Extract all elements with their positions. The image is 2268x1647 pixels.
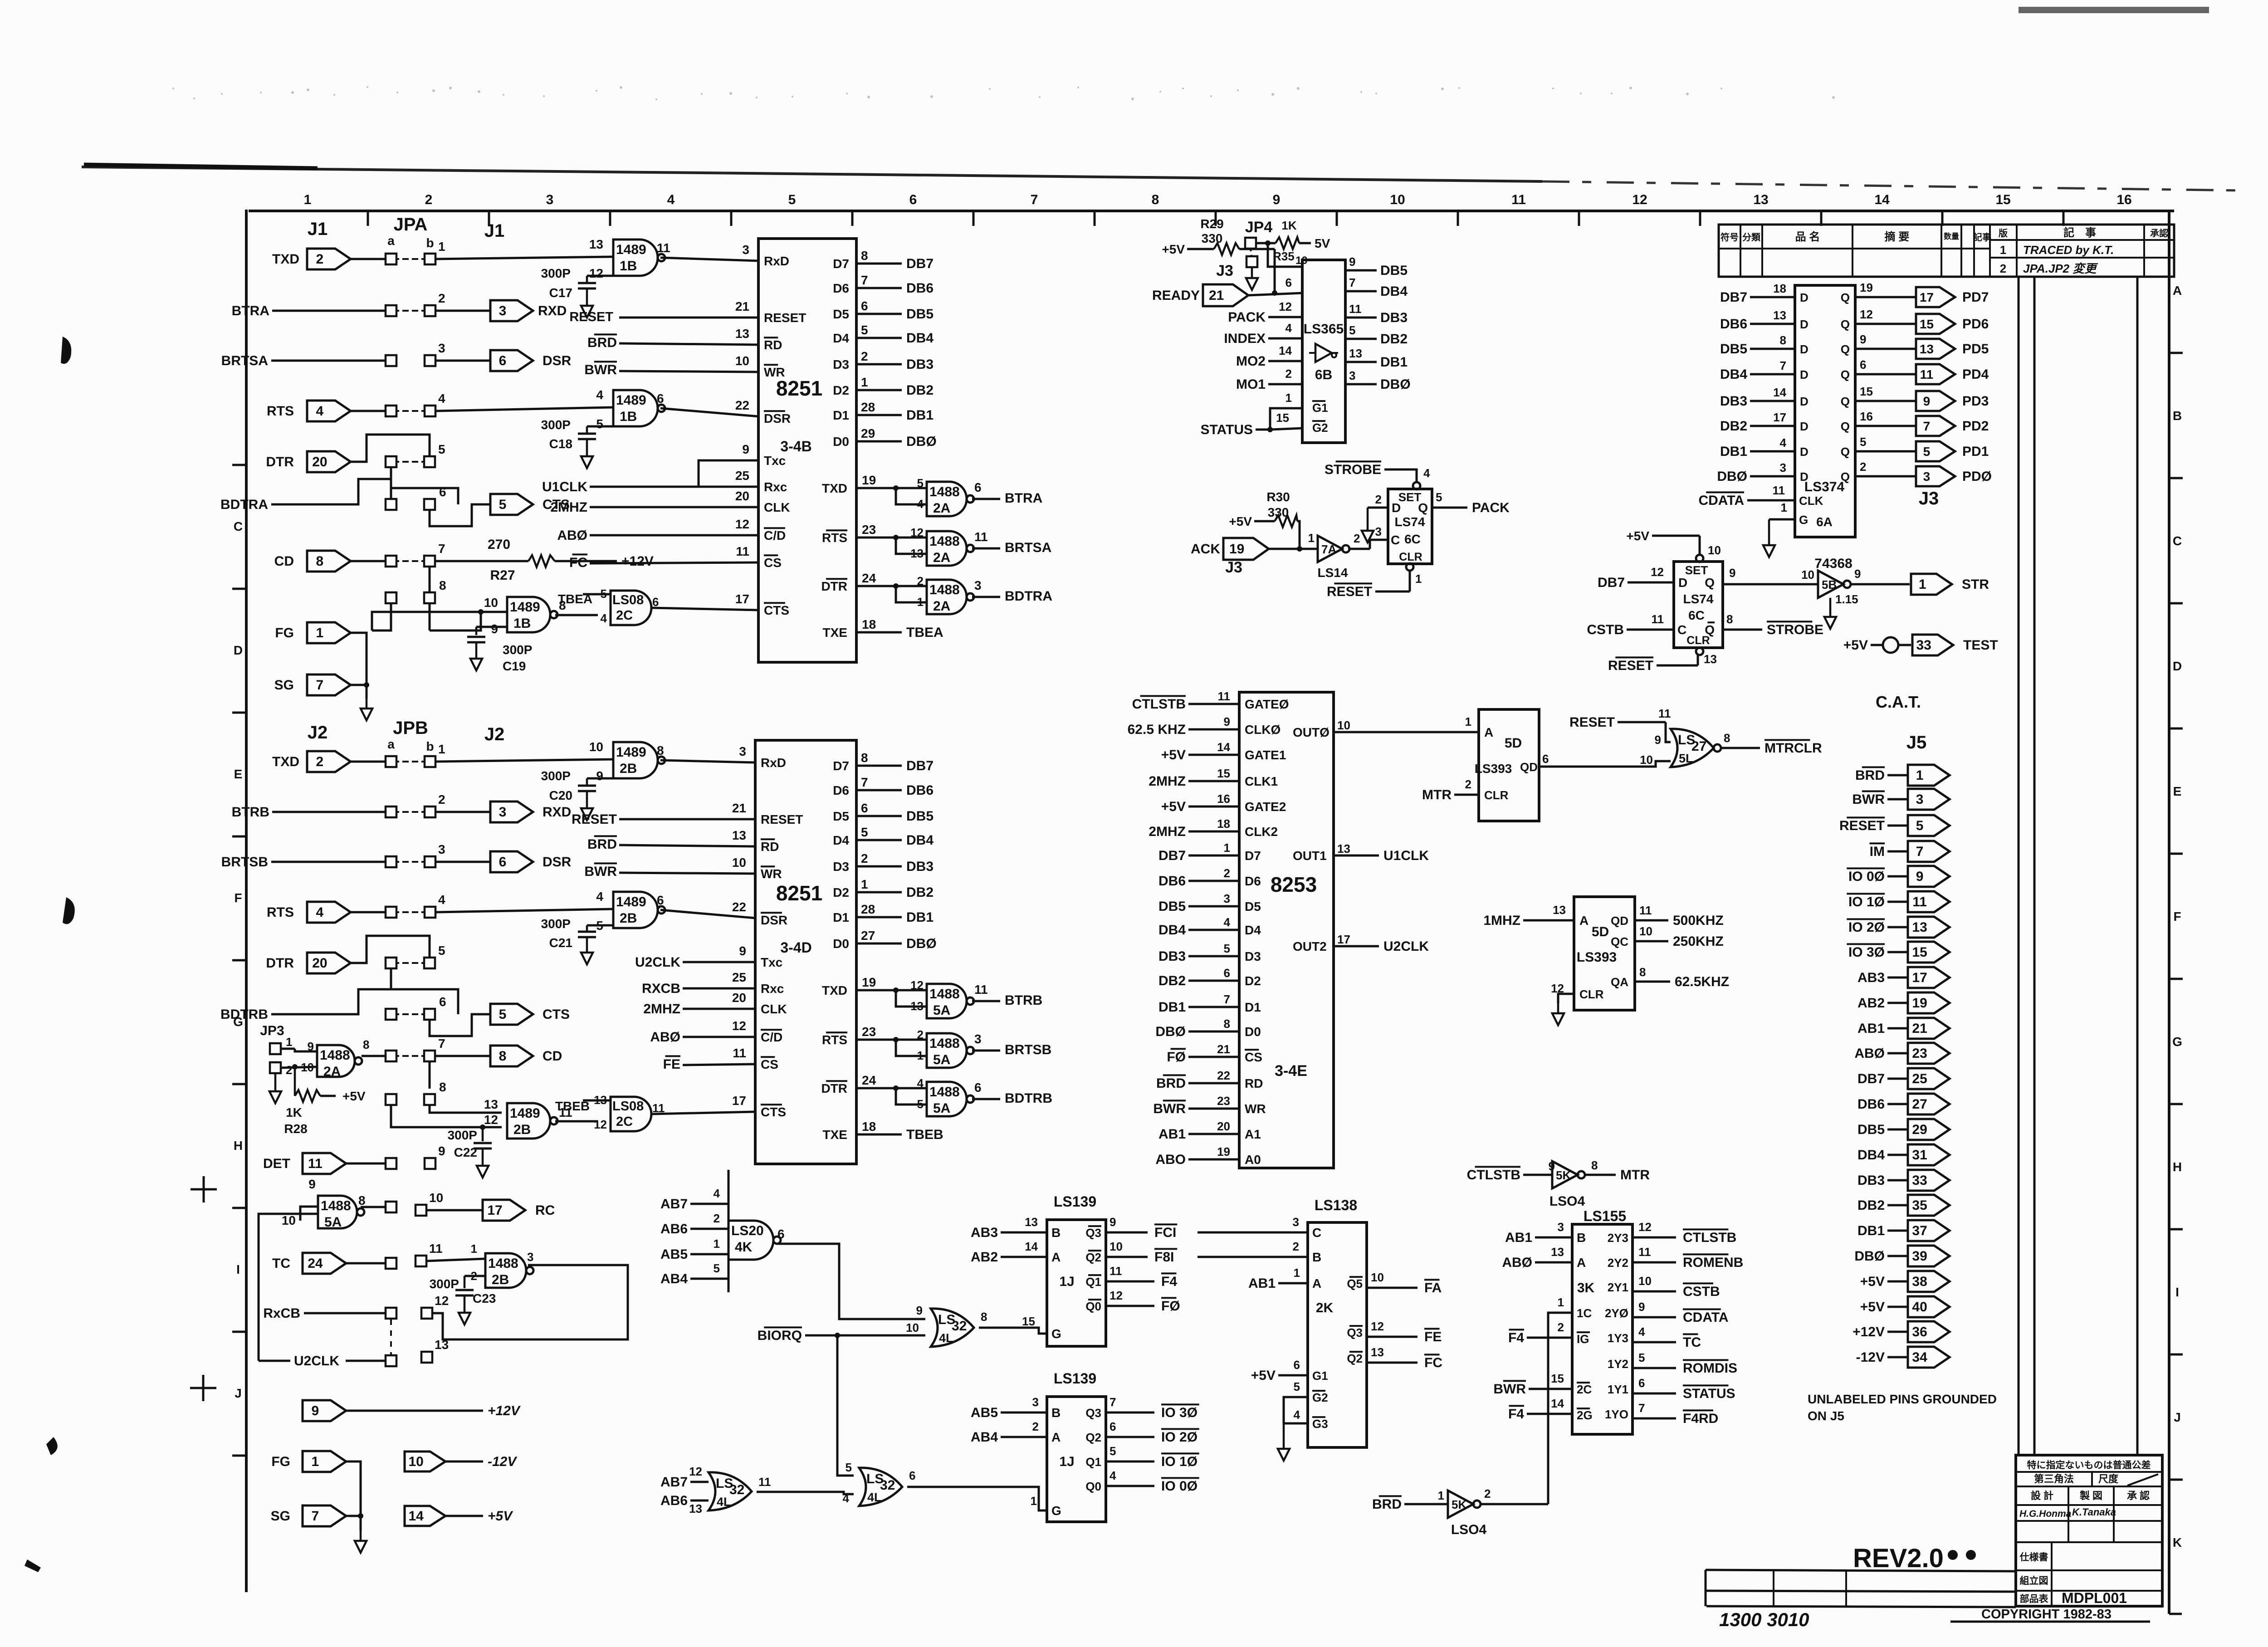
- svg-text:LS74: LS74: [1395, 515, 1425, 529]
- svg-text:4: 4: [596, 388, 603, 402]
- svg-text:D: D: [1800, 291, 1809, 304]
- svg-text:A: A: [1484, 725, 1493, 739]
- svg-text:a: a: [387, 737, 395, 751]
- svg-text:5D: 5D: [1592, 924, 1609, 939]
- svg-text:RESET: RESET: [1569, 715, 1615, 730]
- connector J2 pin CD 8: [490, 1046, 562, 1066]
- svg-text:20: 20: [312, 956, 327, 971]
- svg-text:D6: D6: [1245, 874, 1261, 888]
- svg-text:G3: G3: [1312, 1417, 1328, 1431]
- svg-text:DB2: DB2: [1857, 1198, 1885, 1213]
- svg-text:AB4: AB4: [660, 1271, 688, 1286]
- svg-text:RxD: RxD: [764, 254, 789, 268]
- svg-text:TXD: TXD: [822, 481, 847, 495]
- net RxCB row: [263, 1306, 386, 1321]
- svg-text:J2: J2: [308, 723, 328, 743]
- connector J1 label: [308, 219, 328, 239]
- svg-text:尺度: 尺度: [2098, 1473, 2119, 1485]
- svg-text:FC: FC: [569, 555, 587, 570]
- svg-text:2: 2: [1860, 460, 1866, 474]
- svg-text:2C: 2C: [616, 1114, 633, 1129]
- svg-text:1B: 1B: [620, 259, 637, 274]
- wire LS393 QD pin 11 to 500KHZ: [1635, 904, 1724, 928]
- svg-text:A: A: [1051, 1250, 1061, 1264]
- svg-text:3-4E: 3-4E: [1275, 1062, 1307, 1080]
- svg-text:32: 32: [952, 1319, 967, 1334]
- svg-text:FG: FG: [271, 1454, 290, 1469]
- svg-text:6: 6: [1860, 358, 1866, 371]
- svg-text:OUT1: OUT1: [1293, 849, 1327, 863]
- ground: [1362, 521, 1374, 542]
- svg-text:300P: 300P: [430, 1277, 459, 1291]
- wire STATUS to LS365 G1/G2: [1200, 391, 1302, 437]
- svg-text:8: 8: [1591, 1158, 1598, 1172]
- wire RXCB to 8251B Rxc pin 25: [642, 970, 755, 996]
- svg-text:DB3: DB3: [1158, 949, 1186, 964]
- svg-text:D5: D5: [833, 307, 849, 321]
- connector J5 pin +12V 36: [1853, 1321, 1950, 1342]
- svg-text:1: 1: [917, 1049, 924, 1062]
- svg-text:6: 6: [1110, 1420, 1116, 1433]
- connector J5 pin IM 7: [1870, 841, 1950, 862]
- svg-text:11: 11: [974, 530, 988, 544]
- svg-text:13: 13: [1912, 920, 1927, 935]
- svg-text:DB7: DB7: [906, 256, 934, 271]
- svg-text:PD6: PD6: [1962, 317, 1989, 332]
- connector J5 pin AB3 17: [1857, 967, 1950, 988]
- svg-text:STATUS: STATUS: [1683, 1386, 1735, 1401]
- svg-text:D4: D4: [833, 331, 849, 345]
- connector pin 10 to -12V: [405, 1452, 518, 1471]
- svg-text:13: 13: [1551, 1245, 1564, 1259]
- svg-text:DB3: DB3: [1380, 310, 1408, 325]
- svg-text:1Y3: 1Y3: [1608, 1331, 1628, 1345]
- svg-text:2: 2: [286, 1063, 292, 1077]
- svg-text:D7: D7: [833, 257, 849, 271]
- wire LS08 out to 8251 CTS pin 17: [651, 1094, 755, 1114]
- svg-text:24: 24: [862, 1073, 876, 1087]
- jumper JPA row 5: [386, 442, 445, 467]
- svg-text:TXD: TXD: [272, 754, 299, 769]
- svg-text:AB7: AB7: [660, 1475, 688, 1490]
- svg-text:LS74: LS74: [1683, 592, 1714, 606]
- svg-text:PD4: PD4: [1962, 367, 1989, 382]
- svg-text:CLR: CLR: [1579, 987, 1604, 1001]
- svg-text:6: 6: [861, 801, 868, 815]
- svg-text:2: 2: [425, 192, 433, 207]
- svg-text:DTR: DTR: [266, 455, 294, 469]
- capacitor C17 300P: [541, 266, 613, 300]
- wire DET to pad: [346, 1163, 386, 1165]
- svg-text:RXCB: RXCB: [642, 981, 680, 996]
- wire LS393 QA pin 8 to 62.5KHZ: [1635, 965, 1729, 989]
- wire JPA row7 down to row8: [429, 567, 431, 591]
- svg-text:11: 11: [1218, 689, 1231, 703]
- svg-text:13: 13: [1553, 903, 1566, 917]
- svg-text:7: 7: [316, 678, 324, 693]
- ground: [1552, 1003, 1564, 1025]
- svg-text:1J: 1J: [1059, 1274, 1074, 1289]
- svg-text:JP4: JP4: [1245, 219, 1273, 236]
- svg-text:DB7: DB7: [1857, 1071, 1885, 1086]
- svg-text:17: 17: [735, 592, 749, 606]
- svg-text:MO1: MO1: [1236, 377, 1266, 392]
- note: unlabeled pins grounded on J5: [1808, 1392, 1997, 1423]
- svg-text:3-4D: 3-4D: [780, 939, 811, 956]
- svg-text:1K: 1K: [286, 1105, 302, 1119]
- wire LS20 out to LS32 pin 9: [777, 1244, 925, 1319]
- svg-text:2C: 2C: [616, 608, 633, 623]
- svg-text:5A: 5A: [933, 1003, 950, 1018]
- wire BIORQ down to LS32 gate b: [837, 1335, 854, 1476]
- svg-text:300P: 300P: [541, 418, 571, 432]
- svg-text:LS139: LS139: [1054, 1370, 1096, 1387]
- net STROBE to LS74 SET: [1325, 461, 1430, 482]
- svg-text:20: 20: [735, 489, 749, 503]
- wire LS138 G2/G3 to ground: [1284, 1380, 1308, 1439]
- svg-text:10: 10: [735, 354, 749, 368]
- svg-text:記事: 記事: [1973, 232, 1991, 243]
- svg-text:C: C: [1677, 623, 1686, 637]
- ground: [361, 699, 372, 720]
- svg-text:I: I: [236, 1262, 240, 1276]
- svg-text:AB3: AB3: [971, 1225, 998, 1240]
- svg-text:RxCB: RxCB: [263, 1306, 300, 1321]
- svg-text:13: 13: [1773, 308, 1786, 322]
- connector J2 pin DSR 6: [490, 851, 572, 872]
- ground: [477, 1156, 489, 1178]
- svg-text:CTS: CTS: [543, 1007, 570, 1022]
- wire U2CLK to 8251B Txc pin 9: [635, 944, 755, 970]
- decoder LS139 1J (IO decode): [1047, 1370, 1106, 1522]
- wire 1MHZ to LS393 pin 13: [1483, 903, 1574, 928]
- svg-text:DB1: DB1: [1380, 355, 1408, 370]
- svg-text:設 計: 設 計: [2031, 1490, 2053, 1501]
- svg-text:6: 6: [974, 480, 982, 494]
- svg-text:+5V: +5V: [1161, 799, 1186, 814]
- jumper JPA row 3: [386, 341, 445, 366]
- svg-text:R29: R29: [1200, 217, 1223, 231]
- svg-text:1: 1: [438, 742, 445, 756]
- svg-text:18: 18: [862, 1119, 876, 1134]
- svg-text:27: 27: [1691, 739, 1706, 754]
- svg-text:E: E: [2173, 784, 2182, 798]
- svg-text:11: 11: [974, 982, 988, 997]
- svg-text:OUTØ: OUTØ: [1293, 725, 1330, 739]
- svg-text:AB4: AB4: [971, 1430, 998, 1445]
- connector J5 pin DB2 35: [1857, 1195, 1950, 1216]
- svg-text:BRD: BRD: [1372, 1497, 1402, 1512]
- svg-text:TXE: TXE: [823, 1128, 847, 1142]
- svg-text:2: 2: [1375, 493, 1382, 506]
- svg-text:8: 8: [1726, 612, 1733, 626]
- svg-text:COPYRIGHT 1982-83: COPYRIGHT 1982-83: [1981, 1607, 2112, 1622]
- svg-text:2: 2: [861, 349, 868, 363]
- svg-text:D: D: [1392, 501, 1401, 515]
- svg-text:7: 7: [1916, 844, 1924, 859]
- ground: [1246, 268, 1258, 290]
- svg-text:OUT2: OUT2: [1293, 939, 1327, 953]
- wire AB1 to LS138 A pin 1: [1248, 1266, 1308, 1291]
- svg-text:D3: D3: [833, 357, 849, 371]
- svg-text:3: 3: [438, 341, 445, 355]
- svg-text:5: 5: [861, 825, 868, 839]
- wire LS32 out to LS139 G pin 15: [979, 1315, 1047, 1334]
- svg-text:IO 3Ø: IO 3Ø: [1161, 1405, 1198, 1420]
- svg-text:6A: 6A: [1816, 515, 1833, 529]
- svg-text:BTRB: BTRB: [1005, 993, 1042, 1008]
- svg-text:DB1: DB1: [1720, 444, 1747, 459]
- svg-text:BIORQ: BIORQ: [758, 1328, 802, 1343]
- svg-text:2C: 2C: [1577, 1383, 1592, 1396]
- svg-text:3: 3: [438, 842, 445, 856]
- svg-text:記 事: 記 事: [2063, 226, 2096, 239]
- svg-text:7: 7: [1224, 992, 1230, 1006]
- wire LS393 QD pin 6 to LS27: [1539, 752, 1671, 767]
- svg-text:Q: Q: [1418, 501, 1428, 515]
- svg-text:250KHZ: 250KHZ: [1673, 934, 1724, 949]
- wire JPB row7 to CD connector: [430, 1056, 490, 1089]
- svg-text:2: 2: [714, 1212, 720, 1225]
- svg-text:4: 4: [1224, 915, 1231, 929]
- svg-text:1489: 1489: [616, 894, 646, 909]
- svg-text:2B: 2B: [513, 1122, 531, 1137]
- svg-text:D: D: [1800, 470, 1809, 484]
- svg-text:3: 3: [1224, 892, 1230, 905]
- svg-text:1Y1: 1Y1: [1608, 1383, 1628, 1396]
- svg-text:F: F: [234, 891, 242, 905]
- svg-text:+12V: +12V: [621, 554, 654, 569]
- svg-text:1300 3010: 1300 3010: [1719, 1609, 1809, 1630]
- net BDTRB (J2): [220, 989, 391, 1022]
- connector J1 pin DSR 6: [490, 350, 572, 371]
- svg-text:4: 4: [1286, 321, 1292, 335]
- svg-text:3: 3: [974, 578, 982, 592]
- svg-text:+5V: +5V: [1860, 1300, 1885, 1315]
- svg-text:21: 21: [735, 299, 749, 313]
- net RESET to LS27 pin 11: [1569, 707, 1671, 742]
- svg-text:5: 5: [438, 943, 445, 958]
- wire READY to LS365 pin 6: [1248, 276, 1302, 295]
- svg-text:JP3: JP3: [260, 1023, 284, 1038]
- svg-text:25: 25: [1912, 1071, 1927, 1086]
- wire ACK to LS14: [1269, 546, 1318, 552]
- svg-text:4: 4: [1780, 436, 1787, 450]
- svg-text:DB5: DB5: [1380, 263, 1408, 278]
- svg-text:DB1: DB1: [1158, 1000, 1186, 1015]
- svg-text:10: 10: [1638, 1274, 1652, 1288]
- svg-text:RD: RD: [764, 338, 782, 352]
- svg-text:LS139: LS139: [1054, 1193, 1096, 1210]
- svg-text:1: 1: [1781, 501, 1787, 514]
- svg-text:13: 13: [435, 1338, 449, 1352]
- svg-text:4: 4: [316, 905, 324, 920]
- svg-text:29: 29: [861, 426, 875, 440]
- svg-text:G: G: [1799, 513, 1808, 527]
- wire 1489 out to LS08 2C: [555, 587, 611, 615]
- svg-text:14: 14: [1025, 1240, 1038, 1253]
- connector J2 pin CTS 5: [490, 1004, 570, 1025]
- svg-text:2: 2: [438, 792, 445, 806]
- svg-text:22: 22: [732, 900, 746, 914]
- svg-text:10: 10: [282, 1213, 296, 1227]
- svg-text:6: 6: [499, 353, 507, 368]
- svg-text:Q: Q: [1841, 395, 1850, 408]
- svg-text:DB6: DB6: [906, 281, 934, 296]
- svg-text:LS08: LS08: [612, 1099, 644, 1114]
- jumper JPB row 9: [386, 1144, 445, 1169]
- wire JPB to 1489 2B pin 10: [436, 759, 613, 762]
- svg-text:D7: D7: [1245, 849, 1261, 863]
- jumper pad (TC row a): [386, 1258, 396, 1269]
- svg-text:DB4: DB4: [1380, 284, 1408, 299]
- LS365 outputs to DB5-DB0: [1345, 255, 1411, 392]
- svg-text:WR: WR: [761, 867, 782, 881]
- svg-text:Q: Q: [1841, 445, 1850, 459]
- svg-text:10: 10: [589, 740, 603, 754]
- svg-text:DTR: DTR: [821, 579, 847, 593]
- jumper dashed link RxCB to U2CLK pad: [390, 1320, 392, 1354]
- svg-text:BTRA: BTRA: [232, 303, 269, 318]
- wire JPA row6 to CTS connector: [391, 479, 490, 526]
- svg-text:8253: 8253: [1271, 873, 1317, 896]
- svg-text:4K: 4K: [735, 1240, 753, 1255]
- wire JPB to RXD connector: [436, 811, 490, 813]
- svg-text:CLR: CLR: [1484, 788, 1509, 802]
- wire DB7 to LS74 D pin 12: [1598, 565, 1674, 590]
- svg-text:1: 1: [1031, 1494, 1037, 1508]
- svg-text:D4: D4: [833, 833, 849, 847]
- jumper JPA row 4: [386, 391, 445, 416]
- svg-text:b: b: [426, 236, 434, 250]
- line driver 1488 2A gate a (TXD to BTRA): [822, 473, 1042, 516]
- svg-text:1488: 1488: [929, 582, 960, 597]
- svg-text:2Y3: 2Y3: [1608, 1231, 1628, 1245]
- svg-text:11: 11: [1920, 367, 1934, 381]
- line receiver 1489 2B (gate b): [596, 889, 665, 933]
- wire LS155 1Y0 pin 7 to F4RD: [1633, 1401, 1718, 1426]
- wire 1488 2B out loop to pad 12: [432, 1265, 628, 1339]
- svg-text:G: G: [2172, 1035, 2182, 1049]
- svg-text:1: 1: [1438, 1489, 1444, 1502]
- svg-text:5: 5: [917, 1097, 924, 1111]
- svg-text:31: 31: [1912, 1148, 1927, 1163]
- svg-text:D0: D0: [1245, 1025, 1261, 1039]
- svg-text:20: 20: [732, 991, 746, 1005]
- wire LS32 gate b out to LS139 G pin 1: [907, 1487, 1047, 1510]
- svg-text:BDTRA: BDTRA: [1005, 589, 1052, 604]
- svg-text:5D: 5D: [1505, 736, 1522, 751]
- svg-text:DB7: DB7: [1598, 575, 1625, 590]
- wire LS139 Q0 to IO00: [1106, 1469, 1199, 1494]
- OR gate LS32 4L (gate b): [843, 1461, 916, 1506]
- line receiver 1489 1B (gate b): [596, 388, 665, 431]
- svg-text:12: 12: [735, 517, 749, 531]
- jumper JPB row 6: [386, 995, 446, 1020]
- connector J5 pin DB3 33: [1857, 1170, 1950, 1191]
- svg-text:330: 330: [1202, 231, 1223, 245]
- svg-text:LS393: LS393: [1577, 950, 1617, 965]
- svg-text:6C: 6C: [1688, 608, 1705, 622]
- wire 5A inputs from U2CLK vertical: [259, 1214, 318, 1361]
- svg-text:5: 5: [1436, 490, 1442, 504]
- resistor R29 330 from +5V: [1162, 217, 1277, 296]
- svg-text:RTS: RTS: [267, 905, 294, 920]
- connector J5 pin +5V 38: [1860, 1271, 1950, 1292]
- svg-text:REV2.0: REV2.0: [1853, 1544, 1944, 1573]
- svg-text:AB1: AB1: [1158, 1127, 1186, 1142]
- jumper JPB row 4: [386, 893, 445, 918]
- svg-text:C: C: [1391, 533, 1400, 547]
- svg-text:D5: D5: [1245, 899, 1261, 914]
- svg-text:LSO4: LSO4: [1549, 1194, 1585, 1209]
- wire JPA to 1489 1B pin 4: [436, 407, 613, 411]
- wire 8253 OUT2 pin 17 to U2CLK: [1293, 933, 1429, 954]
- svg-text:MTR: MTR: [1620, 1168, 1650, 1183]
- svg-text:RTS: RTS: [822, 531, 847, 545]
- svg-text:11: 11: [758, 1475, 771, 1489]
- svg-text:7: 7: [861, 273, 868, 287]
- svg-text:U2CLK: U2CLK: [294, 1354, 339, 1368]
- svg-text:17: 17: [487, 1203, 502, 1218]
- svg-text:CLK2: CLK2: [1245, 825, 1278, 839]
- svg-text:4L: 4L: [867, 1491, 882, 1504]
- jumper pad (RC row a): [386, 1202, 396, 1212]
- svg-text:CSTB: CSTB: [1683, 1284, 1720, 1299]
- svg-text:DB6: DB6: [1158, 874, 1186, 889]
- svg-text:BRD: BRD: [1156, 1076, 1186, 1091]
- svg-text:DSR: DSR: [543, 855, 572, 870]
- svg-text:Q3: Q3: [1085, 1406, 1101, 1420]
- svg-text:J3: J3: [1216, 262, 1233, 279]
- ground: [581, 296, 593, 318]
- svg-text:G2: G2: [1312, 421, 1328, 435]
- svg-text:B: B: [1577, 1231, 1586, 1245]
- svg-text:19: 19: [1860, 281, 1873, 294]
- wire AB1 to LS155 B pin 3: [1505, 1220, 1572, 1245]
- svg-text:8: 8: [1639, 965, 1646, 979]
- svg-text:DB5: DB5: [1720, 342, 1747, 357]
- svg-text:AB7: AB7: [660, 1197, 688, 1212]
- wire LS27 out to MTRCLR: [1721, 740, 1822, 756]
- svg-text:1488: 1488: [929, 484, 960, 499]
- svg-text:F4RD: F4RD: [1683, 1411, 1718, 1426]
- svg-text:8: 8: [1152, 192, 1159, 207]
- svg-text:12: 12: [1110, 1289, 1123, 1302]
- wire MO2 to LS365 pin 14: [1236, 344, 1302, 369]
- svg-text:R35: R35: [1273, 249, 1295, 263]
- svg-text:5K: 5K: [1452, 1498, 1466, 1511]
- line driver 1488 5A (gate d): [282, 1177, 366, 1230]
- svg-text:J: J: [235, 1386, 242, 1400]
- svg-text:300P: 300P: [503, 643, 532, 657]
- svg-text:9: 9: [739, 944, 746, 958]
- svg-text:J5: J5: [1906, 733, 1927, 753]
- svg-text:8: 8: [358, 1193, 366, 1207]
- ground: [581, 943, 593, 964]
- line receiver 1489 1B (gate a): [589, 237, 670, 280]
- svg-text:RTS: RTS: [822, 1033, 847, 1047]
- svg-text:29: 29: [1912, 1122, 1927, 1137]
- connector J2 label (right): [484, 724, 505, 744]
- svg-text:9: 9: [308, 1177, 316, 1191]
- jumper pad (RxCB a): [386, 1308, 396, 1319]
- wire LS155 1Y3 pin 4 to TC: [1633, 1325, 1701, 1350]
- svg-text:2MHZ: 2MHZ: [643, 1002, 680, 1017]
- connector J1 label (right): [484, 221, 505, 241]
- svg-text:DBØ: DBØ: [1380, 377, 1411, 392]
- svg-text:11: 11: [1773, 484, 1785, 497]
